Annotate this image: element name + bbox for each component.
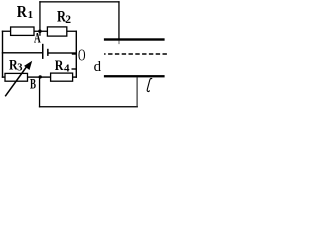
svg-text:1: 1 bbox=[28, 9, 33, 21]
svg-text:B: B bbox=[30, 75, 36, 92]
node O junction tick bbox=[72, 53, 77, 54]
svg-text:2: 2 bbox=[65, 14, 71, 26]
wire: bottom bridge wire bbox=[2, 76, 77, 77]
wire: from node A up bbox=[39, 1, 40, 31]
rheostat arrow shaft bbox=[5, 65, 28, 97]
svg-text:R: R bbox=[55, 57, 64, 74]
svg-text:O: O bbox=[78, 47, 86, 65]
battery cell long plate bbox=[42, 44, 44, 59]
junction tick lower bbox=[72, 68, 77, 69]
svg-text:A: A bbox=[34, 29, 41, 46]
svg-text:d: d bbox=[94, 59, 102, 75]
rheostat arrowhead bbox=[24, 61, 32, 70]
svg-text:4: 4 bbox=[64, 63, 70, 75]
node A junction dot bbox=[38, 30, 41, 33]
resistor R4 box bbox=[51, 73, 73, 81]
wire: battery branch left segment bbox=[2, 52, 43, 53]
resistor R3 box (rheostat) bbox=[5, 73, 28, 81]
resistor R1 box bbox=[11, 27, 34, 35]
wire: bottom return wire bbox=[39, 106, 138, 107]
wire: stub below node A bbox=[39, 31, 40, 36]
wire: up to bottom plate bbox=[137, 77, 138, 106]
wire: right vertical wire bbox=[76, 31, 77, 78]
wire: top bridge wire bbox=[2, 31, 77, 32]
label R4 bbox=[55, 57, 70, 75]
wire: top horizontal to capacitor bbox=[39, 1, 119, 2]
wire: from node B down bbox=[39, 77, 40, 107]
label R3 bbox=[9, 56, 23, 73]
capacitor bottom plate bbox=[104, 75, 165, 77]
capacitor top plate bbox=[104, 38, 165, 40]
dashed beam axis bbox=[104, 53, 106, 54]
label R2 bbox=[57, 8, 71, 26]
label l (plate length) bbox=[147, 78, 152, 91]
label R1 bbox=[17, 3, 33, 21]
wire: battery branch right segment bbox=[48, 52, 77, 53]
wire: left rail bbox=[2, 31, 3, 78]
svg-text:R: R bbox=[17, 3, 28, 21]
wire: tiny continuation below top plate bbox=[119, 41, 120, 45]
battery cell short plate bbox=[47, 49, 49, 56]
node B junction dot bbox=[39, 75, 42, 78]
resistor R2 box bbox=[47, 27, 66, 36]
svg-text:3: 3 bbox=[17, 63, 22, 74]
wire: down to top plate bbox=[118, 1, 119, 39]
